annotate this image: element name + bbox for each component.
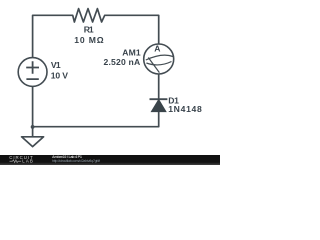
svg-text:V1: V1 xyxy=(51,60,61,70)
svg-text:R1: R1 xyxy=(84,25,94,35)
svg-text:http://circuitlab.com/c/2ahtv8: http://circuitlab.com/c/2ahtv8q7gfdf xyxy=(52,159,100,163)
svg-text:A: A xyxy=(154,43,160,53)
svg-text:2.520 nA: 2.520 nA xyxy=(104,57,141,67)
svg-text:1N4148: 1N4148 xyxy=(168,104,202,114)
svg-text:LAB: LAB xyxy=(22,159,33,164)
svg-text:10 V: 10 V xyxy=(51,71,69,81)
svg-text:10 MΩ: 10 MΩ xyxy=(74,35,103,45)
